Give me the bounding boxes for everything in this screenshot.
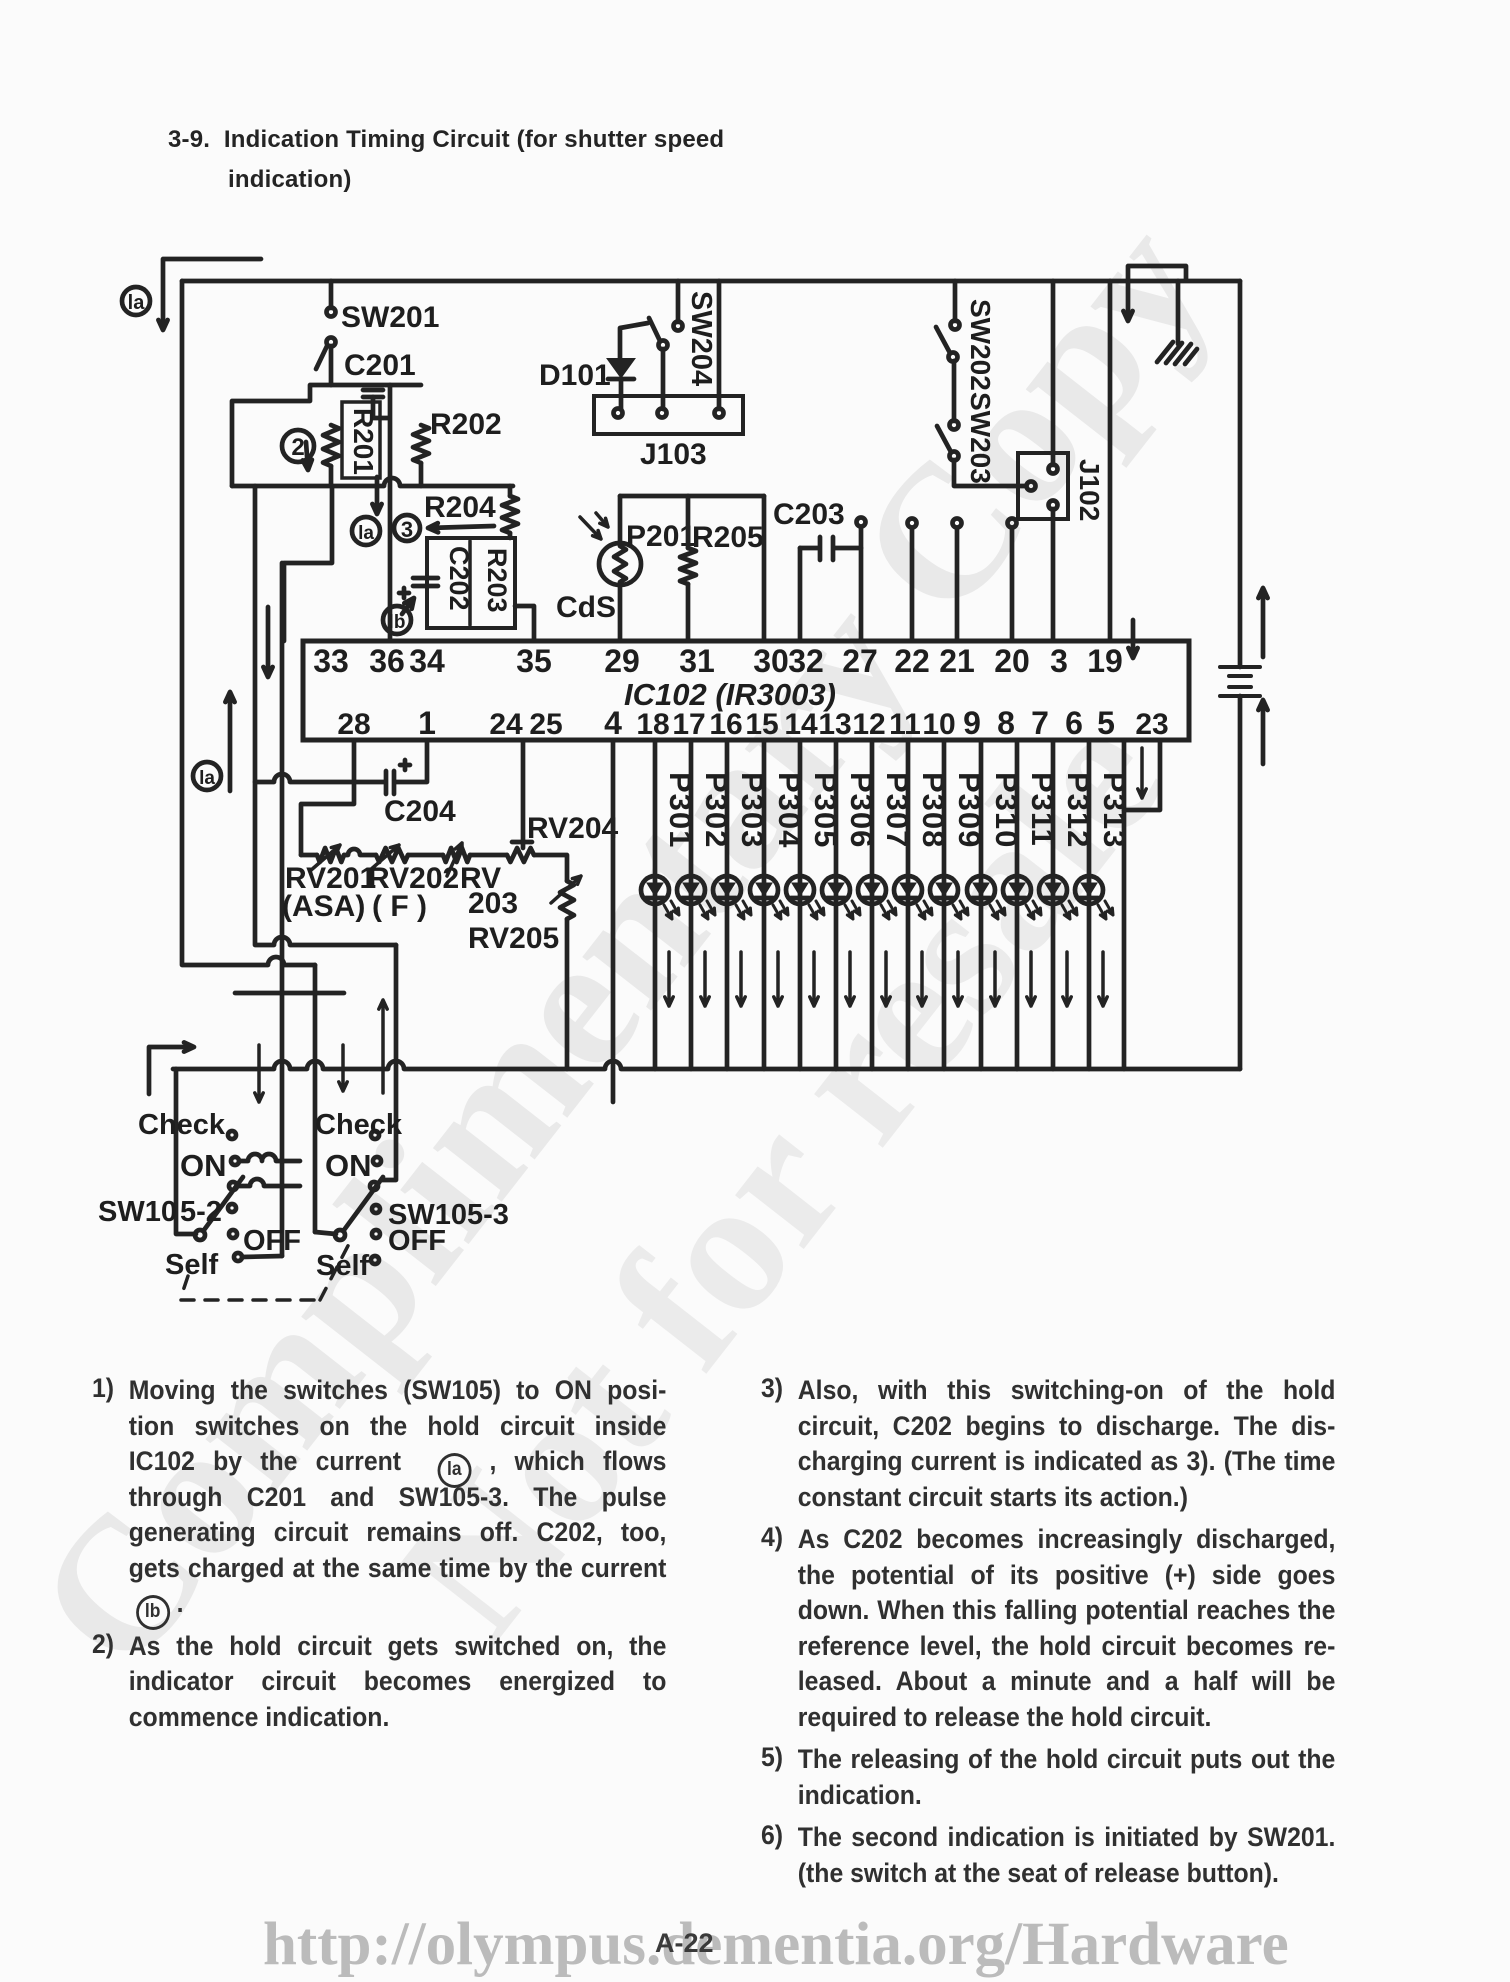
- wire pin28 drop: [301, 740, 354, 855]
- arrow pin23 current: [1138, 748, 1146, 798]
- svg-text:C202: C202: [444, 546, 474, 611]
- LED P302: [677, 876, 705, 904]
- wire battery bottom lead: [1238, 696, 1243, 1069]
- wire pin21 open lead: [955, 528, 960, 641]
- wire pin19 lead: [1108, 281, 1113, 641]
- wire J102 top to bus: [1051, 281, 1056, 465]
- resistor R204: [502, 496, 518, 533]
- svg-text:17: 17: [672, 708, 705, 741]
- wire hook arrow top right: [1128, 266, 1186, 318]
- wire D101 branch: [620, 323, 648, 359]
- svg-text:1: 1: [418, 705, 436, 741]
- svg-text:6: 6: [1065, 705, 1083, 741]
- svg-text:( F ): ( F ): [372, 890, 427, 923]
- svg-text:13: 13: [818, 708, 851, 741]
- arrow P308 current: [918, 952, 926, 1006]
- LED P312 emission arrows: [1062, 905, 1070, 919]
- svg-text:ON: ON: [180, 1148, 227, 1183]
- node 2 annotation: [282, 430, 314, 462]
- LED P307 emission arrows: [881, 905, 889, 919]
- wire LED column P305: [798, 740, 803, 1069]
- wire short connector: [235, 991, 344, 996]
- arrowhead Ia entry: [158, 320, 167, 330]
- arrow from R204 to node3: [428, 523, 494, 532]
- switch SW105-3 lever: [335, 1230, 345, 1240]
- wire mid jog to SW105-3 right: [255, 486, 396, 945]
- wire bottom bus: [173, 1061, 1240, 1069]
- LED P306: [822, 876, 850, 904]
- wire P201 top lead: [618, 496, 623, 543]
- svg-text:10: 10: [922, 708, 955, 741]
- svg-text:27: 27: [842, 643, 878, 679]
- wire pin32 lead: [798, 548, 803, 641]
- wire LED column P304: [762, 740, 767, 1069]
- svg-text:R201: R201: [348, 408, 379, 475]
- svg-text:23: 23: [1135, 708, 1168, 741]
- wire SW203 to J102: [954, 460, 1026, 486]
- svg-text:5-2: 5-2: [180, 1196, 222, 1228]
- arrow P304 current: [774, 952, 782, 1006]
- svg-text:IC102 (IR3003): IC102 (IR3003): [624, 677, 836, 712]
- wire R202 bottom: [419, 463, 424, 486]
- LED P305 emission arrows: [809, 905, 817, 919]
- arrow P303 current: [737, 952, 745, 1006]
- arrow Ib current: [402, 598, 414, 614]
- wire RV203-RV204: [470, 853, 507, 858]
- svg-text:R205: R205: [692, 521, 764, 554]
- variable resistor RV201: [317, 848, 344, 862]
- svg-text:15: 15: [745, 708, 778, 741]
- svg-text:Self: Self: [165, 1249, 219, 1281]
- svg-text:J103: J103: [640, 438, 707, 471]
- svg-text:OFF: OFF: [388, 1225, 446, 1257]
- arrow current up SW105-3: [379, 1000, 387, 1093]
- svg-text:R203: R203: [482, 548, 512, 613]
- wire pin35 stub: [515, 606, 534, 641]
- arrow P306 current: [846, 952, 854, 1006]
- wire pin33 jog: [284, 486, 332, 641]
- wire hold-line x390: [388, 385, 393, 641]
- svg-text:20: 20: [994, 643, 1030, 679]
- LED P303: [713, 876, 741, 904]
- wire SW201 top lead: [329, 281, 334, 308]
- svg-text:RV204: RV204: [527, 812, 619, 845]
- box C202 R203: [427, 538, 515, 628]
- svg-text:SW202: SW202: [965, 299, 996, 391]
- battery B1: [1220, 667, 1260, 696]
- svg-text:P201: P201: [626, 520, 696, 553]
- arrow P313 current: [1099, 952, 1107, 1006]
- switch SW201: [327, 308, 336, 317]
- wire LED column P310: [979, 740, 984, 1069]
- resistor R205: [686, 496, 691, 548]
- LED P311: [1003, 876, 1031, 904]
- LED P310 emission arrows: [990, 905, 998, 919]
- svg-text:25: 25: [529, 708, 562, 741]
- svg-text:32: 32: [788, 643, 824, 679]
- arrow P302 current: [701, 952, 709, 1006]
- box R201 label frame: [342, 402, 380, 478]
- capacitor C203: [800, 537, 861, 560]
- wire RV201-RV202: [344, 849, 376, 855]
- title: [168, 120, 838, 200]
- svg-text:SW203: SW203: [965, 392, 996, 484]
- LED P303 emission arrows: [736, 905, 744, 919]
- wire RV204-RV205: [534, 855, 567, 881]
- arrow current into SW105-2: [255, 1045, 263, 1102]
- svg-text:(ASA): (ASA): [282, 890, 365, 923]
- LED P301 emission arrows: [664, 905, 672, 919]
- wire LED column P303: [725, 740, 730, 1069]
- svg-text:la: la: [199, 768, 215, 789]
- svg-text:SW10: SW10: [98, 1196, 177, 1228]
- body text right column: [761, 1373, 1335, 1898]
- wire RV202-RV203: [408, 853, 443, 858]
- variable resistor RV204: [507, 848, 534, 862]
- node Ia annotation mid: [352, 517, 380, 545]
- svg-text:SW201: SW201: [341, 301, 439, 334]
- svg-text:9: 9: [963, 705, 981, 741]
- svg-text:C203: C203: [773, 498, 845, 531]
- capacitor C201: [363, 390, 383, 397]
- op-amp IC102 box: [303, 641, 1189, 740]
- diode D101: [608, 359, 634, 377]
- svg-text:RV205: RV205: [468, 922, 559, 955]
- wire left frame drop: [313, 965, 318, 1232]
- arrow P307 current: [882, 952, 890, 1006]
- svg-text:R202: R202: [430, 408, 502, 441]
- wire SW202-SW203: [952, 361, 957, 421]
- wire battery top lead: [1238, 281, 1243, 667]
- wire LED column P308: [906, 740, 911, 1069]
- arrow P311 current: [1027, 952, 1035, 1006]
- body text left column: [92, 1373, 666, 1742]
- svg-text:8: 8: [997, 705, 1015, 741]
- node Ia annotation lower-left: [193, 762, 221, 790]
- svg-text:3: 3: [401, 517, 413, 542]
- wire pin30 lead: [762, 496, 767, 641]
- arrow P310 current: [991, 952, 999, 1006]
- wire cluster bottom edge: [232, 478, 513, 486]
- wire SW204 top lead: [676, 281, 681, 322]
- variable resistor RV202: [376, 848, 408, 862]
- wire SW105-3 right drop: [382, 945, 396, 1180]
- wire hook arrow into Check: [149, 1047, 190, 1094]
- wire pin4 column: [611, 740, 616, 1102]
- arrow current into SW105-3: [339, 1045, 347, 1091]
- ground: [1157, 342, 1197, 364]
- svg-text:R204: R204: [424, 491, 496, 524]
- svg-text:Check: Check: [315, 1109, 403, 1141]
- wire pin27 lead: [859, 527, 864, 641]
- wire D101 to J103: [619, 379, 624, 409]
- wire ground stub: [1176, 281, 1181, 344]
- LED P304: [750, 876, 778, 904]
- wire long drop to SW105-2: [280, 563, 285, 1256]
- svg-text:19: 19: [1087, 643, 1123, 679]
- wire left frame: [182, 281, 315, 965]
- svg-text:CdS: CdS: [556, 591, 616, 624]
- wire J102 to IC pin3: [1051, 509, 1056, 641]
- arrow pin19 current: [1128, 620, 1137, 658]
- svg-text:2: 2: [291, 434, 304, 461]
- svg-text:18: 18: [636, 708, 669, 741]
- switch SW202: [951, 321, 960, 330]
- svg-text:203: 203: [468, 887, 518, 920]
- svg-text:21: 21: [939, 643, 975, 679]
- wire pin20 open lead: [1010, 528, 1015, 641]
- node 3 annotation: [394, 515, 420, 541]
- svg-text:33: 33: [313, 643, 349, 679]
- svg-text:C201: C201: [344, 349, 416, 382]
- wire SW204 to J103: [661, 349, 666, 409]
- LED P312: [1039, 876, 1067, 904]
- LED P311 emission arrows: [1026, 905, 1034, 919]
- wire RV204 wiper to pin25: [521, 740, 526, 842]
- url watermark: [263, 1910, 1289, 1980]
- svg-text:Check: Check: [138, 1109, 226, 1141]
- svg-text:16: 16: [709, 708, 742, 741]
- svg-text:SW204: SW204: [685, 291, 717, 386]
- svg-text:3: 3: [1050, 643, 1068, 679]
- wire pin22 open lead: [910, 528, 915, 641]
- wire LED column P311: [1015, 740, 1020, 1069]
- LED P308 emission arrows: [917, 905, 925, 919]
- LED P309: [930, 876, 958, 904]
- wire LED column P307: [870, 740, 875, 1069]
- svg-text:35: 35: [516, 643, 552, 679]
- node Ib annotation: [383, 606, 411, 634]
- wire top supply bus: [182, 279, 1240, 284]
- wire C204 branch: [255, 740, 427, 782]
- arrow light into P201 b: [596, 513, 608, 527]
- variable resistor RV205: [560, 881, 574, 919]
- resistor R201: [323, 425, 339, 466]
- switch SW105-2 contacts: [228, 1131, 236, 1139]
- svg-text:28: 28: [337, 708, 370, 741]
- svg-text:C204: C204: [384, 795, 456, 828]
- LED P310: [967, 876, 995, 904]
- page number: [655, 1928, 714, 1959]
- wire LED column P312: [1051, 740, 1056, 1069]
- wire SW105-2 ON link: [239, 1154, 300, 1161]
- wire R201 bottom: [329, 466, 334, 486]
- wire LED column P306: [834, 740, 839, 1069]
- svg-text:30: 30: [753, 643, 789, 679]
- arrow Ia current up: [225, 692, 234, 791]
- arrow Ia current down mid: [372, 477, 381, 514]
- wire LED column P309: [942, 740, 947, 1069]
- wire P201 to pin29: [618, 585, 623, 641]
- switch SW203: [950, 421, 959, 430]
- arrow node-2 current: [303, 442, 312, 470]
- LED P313 emission arrows: [1098, 905, 1106, 919]
- svg-text:29: 29: [604, 643, 640, 679]
- LED P307: [858, 876, 886, 904]
- switch SW105-2 lever: [195, 1230, 205, 1240]
- svg-text:J102: J102: [1074, 459, 1105, 521]
- svg-text:36: 36: [369, 643, 405, 679]
- LED P313: [1075, 876, 1103, 904]
- switch SW105-3 contacts: [371, 1131, 379, 1139]
- svg-text:14: 14: [784, 708, 818, 741]
- LED P305: [786, 876, 814, 904]
- switch SW204: [674, 322, 683, 331]
- svg-text:la: la: [358, 523, 374, 544]
- wire CdS group top: [620, 494, 764, 499]
- wire J103 pin3 to bus: [717, 281, 722, 409]
- wire LED column P313: [1087, 740, 1092, 1069]
- wire SW105-2 mid link: [237, 1179, 300, 1186]
- svg-text:12: 12: [852, 708, 885, 741]
- wire current-Ia entry bracket: [163, 259, 261, 326]
- arrow P309 current: [954, 952, 962, 1006]
- wire node-A horizontal: [331, 383, 421, 388]
- capacitor C204: [386, 760, 410, 794]
- node Ia annotation top-left: [122, 287, 150, 315]
- LED P309 emission arrows: [953, 905, 961, 919]
- wire pin5 column: [1122, 740, 1127, 1069]
- svg-text:22: 22: [894, 643, 930, 679]
- svg-text:la: la: [128, 292, 146, 314]
- wire node-A left jog: [232, 385, 331, 486]
- wire LED column P302: [689, 740, 694, 1069]
- arrow P305 current: [810, 952, 818, 1006]
- LED P304 emission arrows: [773, 905, 781, 919]
- svg-text:ON: ON: [325, 1148, 372, 1183]
- arrowhead hook: [1123, 311, 1132, 321]
- wire SW105-2 self link: [242, 1256, 282, 1257]
- wire pin23 jog: [1124, 740, 1160, 810]
- arrow P312 current: [1063, 952, 1071, 1006]
- svg-text:11: 11: [889, 708, 921, 741]
- linkage dashed: [181, 1238, 352, 1300]
- arrow current up above battery: [1258, 588, 1267, 657]
- capacitor C202 plates: [399, 578, 438, 598]
- arrow light into P201 a: [580, 517, 601, 539]
- arrow P301 current: [665, 952, 673, 1006]
- svg-text:34: 34: [409, 643, 445, 679]
- wire SW201 bottom lead: [329, 346, 334, 385]
- LED P306 emission arrows: [845, 905, 853, 919]
- wire LED column P301: [653, 740, 658, 1069]
- svg-text:31: 31: [679, 643, 715, 679]
- resistor R202: [413, 425, 429, 463]
- connector J103: [594, 396, 743, 434]
- svg-text:7: 7: [1031, 705, 1049, 741]
- LED P308: [894, 876, 922, 904]
- photoresistor P201: [599, 543, 641, 585]
- svg-text:4: 4: [604, 705, 622, 741]
- arrow current up below battery: [1258, 700, 1267, 764]
- variable resistor RV203: [443, 848, 470, 862]
- switch SW105-3 frame: [315, 1232, 336, 1234]
- svg-text:OFF: OFF: [243, 1225, 301, 1257]
- wire RV chain: [301, 853, 317, 858]
- wire RV205 bottom: [565, 919, 570, 1069]
- arrow current down leftmid: [263, 607, 272, 677]
- switch SW105-2 frame: [176, 1069, 196, 1234]
- LED P301: [641, 876, 669, 904]
- svg-text:D101: D101: [539, 359, 611, 392]
- LED P302 emission arrows: [700, 905, 708, 919]
- wire SW202 top lead: [953, 281, 958, 321]
- connector J102: [1018, 453, 1068, 519]
- svg-text:5: 5: [1097, 705, 1115, 741]
- svg-text:24: 24: [489, 708, 523, 741]
